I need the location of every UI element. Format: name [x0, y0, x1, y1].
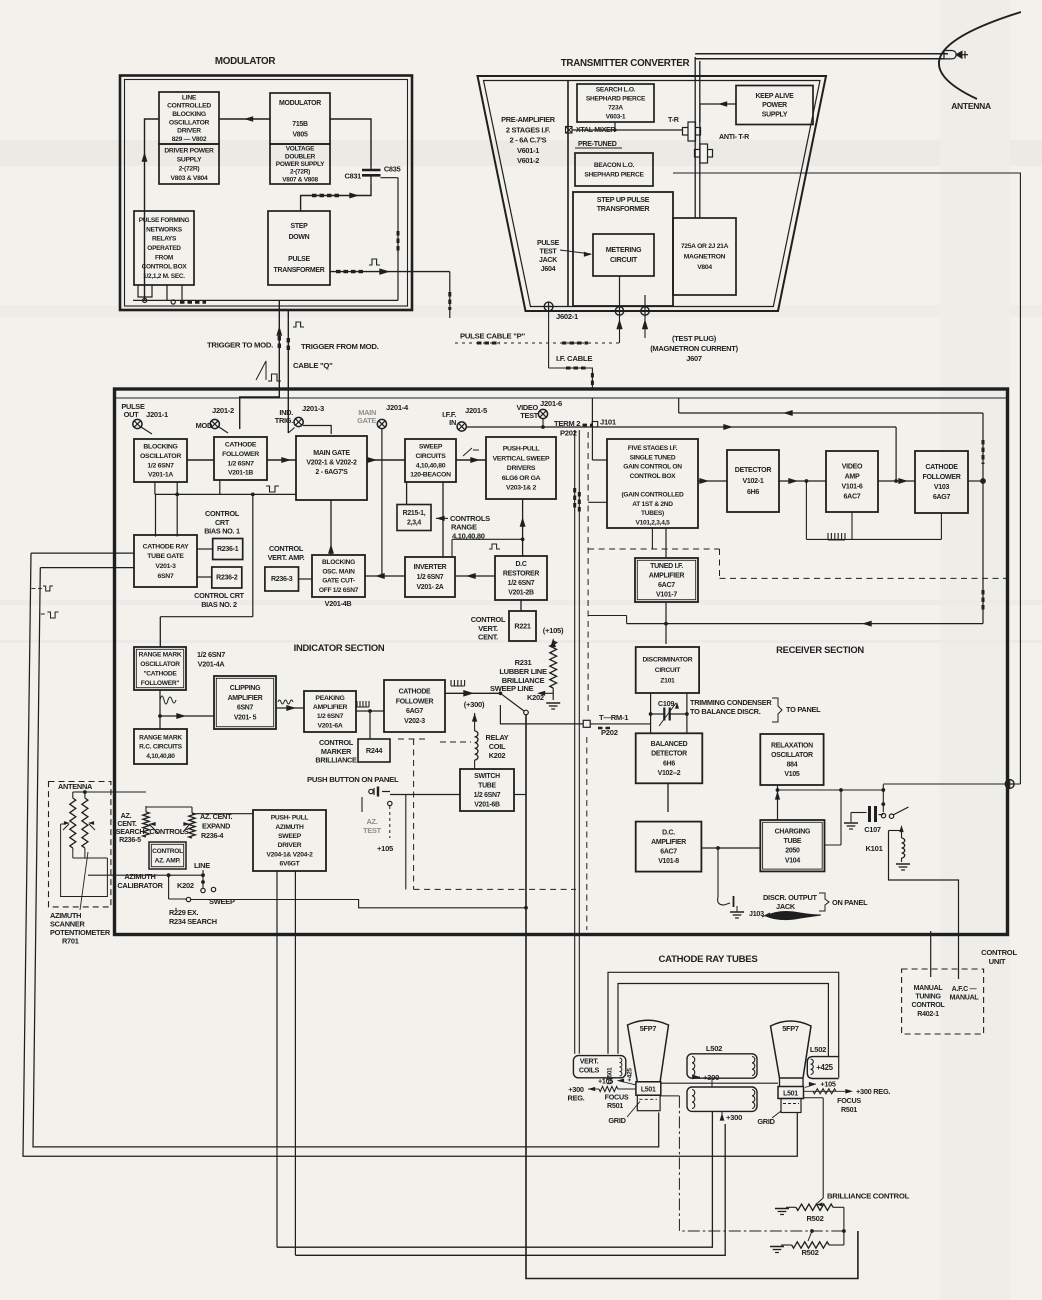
potentiometer R502 lower: [770, 1229, 844, 1257]
svg-text:GATE: GATE: [357, 416, 376, 425]
svg-text:R221: R221: [514, 621, 530, 630]
svg-text:+300: +300: [703, 1073, 719, 1082]
jack J201-3 ind trig: [275, 404, 334, 444]
wire C831 to step down transformer: [301, 184, 371, 211]
wire blocking osc to cathode follower: [187, 459, 214, 461]
svg-text:6AC7: 6AC7: [658, 582, 675, 589]
wire antenna to az line: [85, 791, 146, 793]
svg-text:DISCR. OUTPUT: DISCR. OUTPUT: [763, 893, 817, 902]
svg-text:CONTROL: CONTROL: [471, 615, 506, 624]
svg-text:PULSE: PULSE: [537, 240, 560, 247]
waveform glyph gate A: [32, 586, 54, 591]
svg-text:AMPLIFIER: AMPLIFIER: [649, 573, 685, 580]
svg-text:RANGE MARK: RANGE MARK: [139, 651, 182, 658]
wire detector to video amp: [779, 478, 826, 539]
svg-text:SHEPHARD PIERCE: SHEPHARD PIERCE: [586, 96, 646, 103]
svg-text:TO PANEL: TO PANEL: [786, 705, 821, 714]
svg-text:CLIPPING: CLIPPING: [230, 685, 261, 692]
svg-text:CENT.: CENT.: [117, 820, 137, 828]
svg-text:MAGNETRON: MAGNETRON: [684, 254, 726, 261]
svg-text:CIRCUIT: CIRCUIT: [610, 256, 638, 264]
svg-text:2 - 6A C.7'S: 2 - 6A C.7'S: [510, 136, 547, 145]
svg-text:AMPLIFIER: AMPLIFIER: [228, 695, 263, 702]
svg-text:RANGE MARK: RANGE MARK: [139, 734, 182, 741]
svg-text:6LG6 OR GA: 6LG6 OR GA: [502, 475, 541, 482]
wire push button branch down: [405, 795, 407, 890]
label +300 middle: [692, 1073, 719, 1087]
svg-text:SWEEP: SWEEP: [278, 833, 302, 840]
svg-text:OUT: OUT: [124, 410, 140, 419]
wire step down output pulse cable: [330, 268, 450, 275]
svg-text:725A OR 2J 21A: 725A OR 2J 21A: [681, 243, 729, 250]
svg-text:715B: 715B: [292, 121, 308, 128]
wire five stages bottom: [588, 502, 652, 549]
wire pulse cable P: [447, 272, 622, 343]
pulse test jack label: [537, 240, 592, 273]
svg-text:BRILLIANCE CONTROL: BRILLIANCE CONTROL: [827, 1192, 910, 1201]
svg-text:DOWN: DOWN: [289, 234, 310, 241]
svg-text:ANTENNA: ANTENNA: [951, 101, 991, 111]
wire keep alive to TR: [700, 101, 736, 122]
svg-text:V201-2B: V201-2B: [508, 589, 534, 596]
svg-text:V105: V105: [784, 771, 800, 778]
svg-text:884: 884: [787, 761, 798, 768]
svg-text:FOLLOWER: FOLLOWER: [922, 474, 960, 481]
svg-text:VERT.: VERT.: [478, 624, 498, 633]
resistor R236-2: [212, 567, 242, 588]
svg-text:1/2 6SN7: 1/2 6SN7: [474, 792, 501, 799]
svg-text:V104: V104: [785, 857, 801, 864]
wire restorer to inverter: [455, 573, 495, 579]
pre-amplifier compartment divider: [567, 81, 569, 307]
pre-tuned label: [575, 141, 622, 148]
svg-text:PULSE CABLE "P": PULSE CABLE "P": [460, 332, 525, 341]
wire beacon output to receiver: [673, 173, 1020, 784]
svg-text:TRIGGER FROM MOD.: TRIGGER FROM MOD.: [301, 342, 379, 351]
svg-text:DETECTOR: DETECTOR: [651, 751, 687, 758]
svg-text:AZ.: AZ.: [366, 817, 377, 826]
label az cent search R236-5: [116, 812, 145, 844]
svg-text:RESTORER: RESTORER: [503, 570, 539, 577]
svg-text:CONTROL BOX: CONTROL BOX: [142, 264, 188, 271]
terminal TERM 2 P202: [554, 419, 592, 438]
svg-text:R236-1: R236-1: [217, 546, 239, 553]
svg-text:L501: L501: [641, 1086, 656, 1093]
svg-text:6SN7: 6SN7: [158, 573, 174, 580]
svg-text:FIVE STAGES I.F.: FIVE STAGES I.F.: [628, 445, 678, 452]
beacon LO shephard pierce: [575, 153, 653, 186]
wire five stages to tuned IF: [665, 528, 667, 558]
svg-text:+425: +425: [816, 1063, 833, 1072]
control az amp: [149, 842, 186, 869]
svg-text:R502: R502: [806, 1214, 823, 1223]
svg-text:GAIN CONTROL ON: GAIN CONTROL ON: [623, 464, 682, 471]
svg-text:CRT: CRT: [215, 518, 230, 527]
charging tube 2050 V104: [760, 820, 824, 871]
svg-text:CATHODE RAY TUBES: CATHODE RAY TUBES: [658, 954, 758, 965]
svg-text:J201-2: J201-2: [212, 406, 234, 415]
svg-text:BEACON L.O.: BEACON L.O.: [594, 162, 635, 169]
svg-text:V201-1A: V201-1A: [148, 472, 173, 479]
svg-text:V101-6: V101-6: [841, 484, 862, 491]
svg-text:INDICATOR SECTION: INDICATOR SECTION: [294, 642, 385, 653]
jack J201-6 video test: [516, 399, 562, 429]
dashed mechanical link relay: [440, 741, 471, 743]
svg-text:R215-1,: R215-1,: [403, 510, 426, 517]
svg-text:V807 & V808: V807 & V808: [282, 176, 318, 183]
relay coil K101: [865, 825, 910, 870]
cathode follower V202-3: [384, 680, 445, 732]
svg-text:6AC7: 6AC7: [844, 494, 861, 501]
svg-text:STEP: STEP: [291, 223, 309, 230]
svg-text:V601-2: V601-2: [517, 156, 539, 165]
wire vertical sweep pair to crt: [575, 430, 580, 1054]
svg-text:TRIMMING CONDENSER: TRIMMING CONDENSER: [690, 698, 772, 707]
balanced detector V102-2: [636, 733, 703, 783]
svg-text:6H6: 6H6: [747, 489, 759, 496]
svg-text:CONTROL: CONTROL: [912, 1002, 946, 1009]
svg-text:R402-1: R402-1: [917, 1011, 939, 1018]
svg-text:1/2 6SN7: 1/2 6SN7: [317, 713, 344, 720]
svg-text:R501: R501: [607, 1102, 623, 1110]
wire dc amplifier to charging tube: [701, 846, 760, 897]
az test arrow: [359, 797, 364, 825]
svg-text:SUPPLY: SUPPLY: [762, 112, 788, 119]
svg-text:V601-1: V601-1: [517, 146, 539, 155]
svg-text:POTENTIOMETER: POTENTIOMETER: [50, 928, 111, 937]
relaxation oscillator 884 V105: [760, 734, 823, 785]
label +300 lower middle: [720, 1111, 742, 1122]
svg-text:RECEIVER SECTION: RECEIVER SECTION: [776, 644, 864, 655]
push button symbol: [369, 787, 390, 797]
svg-text:IN: IN: [449, 418, 456, 427]
resistor R221: [509, 611, 536, 641]
label discr output jack: [763, 893, 868, 911]
label trimming condenser: [690, 698, 821, 722]
svg-text:C107: C107: [864, 825, 881, 834]
wire crt gate to R236-1: [197, 548, 213, 550]
wire crt1 L501 to feedback dropper: [660, 1096, 844, 1231]
label R229 R234: [169, 908, 217, 926]
dc restorer V201-2B: [495, 556, 547, 600]
range resistors R215: [397, 505, 431, 531]
wire azimuth driver outputs: [277, 871, 295, 1255]
sweep coil L502 right: [807, 1045, 838, 1079]
svg-text:CABLE "Q": CABLE "Q": [293, 361, 333, 370]
svg-text:BALANCED: BALANCED: [651, 741, 688, 748]
svg-text:UNIT: UNIT: [989, 957, 1006, 966]
svg-text:MODULATOR: MODULATOR: [279, 100, 321, 107]
switch tube V201-6B: [460, 769, 514, 811]
svg-text:LINE: LINE: [182, 94, 197, 101]
wire video output bus: [679, 398, 986, 624]
wire main gate to blocking cutoff: [328, 500, 334, 555]
svg-text:R236-2: R236-2: [216, 575, 238, 582]
svg-text:FROM: FROM: [155, 254, 173, 261]
keep alive power supply: [736, 86, 813, 125]
wire balanced detector to dc amplifier: [665, 783, 672, 828]
svg-text:+300: +300: [726, 1113, 742, 1122]
modulator tube 715B V805: [270, 93, 330, 144]
svg-text:DISCRIMINATOR: DISCRIMINATOR: [642, 657, 692, 664]
svg-text:1/2 6SN7: 1/2 6SN7: [147, 462, 174, 469]
svg-text:TUBE: TUBE: [784, 838, 802, 845]
step down pulse transformer: [268, 211, 330, 285]
resistor R236-3: [265, 567, 299, 591]
svg-text:P202: P202: [601, 728, 618, 737]
svg-text:J201-6: J201-6: [540, 399, 562, 408]
wire relaxation osc to K101 switch: [778, 788, 886, 845]
wire trigger to modulator: [240, 300, 283, 429]
waveguide to antenna: [695, 51, 968, 219]
svg-text:ON PANEL: ON PANEL: [832, 898, 868, 907]
wire clipping to peaking: [276, 700, 304, 711]
svg-text:4,10,40,80: 4,10,40,80: [416, 462, 446, 469]
wire calibrator branch: [167, 873, 186, 899]
svg-text:L502: L502: [706, 1044, 722, 1053]
T-R switch symbol: [668, 116, 701, 141]
svg-text:TRANSFORMER: TRANSFORMER: [597, 205, 651, 213]
svg-text:LUBBER LINE: LUBBER LINE: [499, 667, 547, 676]
svg-text:6AC7: 6AC7: [660, 849, 677, 856]
marker brilliance R244: [358, 739, 390, 762]
waveform glyph range mark: [160, 696, 176, 704]
svg-text:DETECTOR: DETECTOR: [735, 467, 772, 474]
labels right crt supplies: [757, 1080, 890, 1127]
svg-text:6AG7: 6AG7: [406, 708, 423, 715]
svg-text:+300 REG.: +300 REG.: [856, 1087, 890, 1096]
svg-text:6H6: 6H6: [663, 760, 675, 767]
svg-text:CALIBRATOR: CALIBRATOR: [117, 881, 163, 890]
svg-text:DOUBLER: DOUBLER: [285, 153, 316, 160]
potentiometer az cent search R236-5: [143, 806, 158, 837]
svg-text:POWER: POWER: [762, 102, 787, 109]
svg-text:K202: K202: [489, 751, 506, 760]
svg-text:NETWORKS: NETWORKS: [146, 226, 183, 233]
svg-text:(GAIN CONTROLLED: (GAIN CONTROLLED: [622, 492, 684, 499]
cathode ray tube gate V201-3: [134, 535, 197, 587]
svg-text:LINE: LINE: [194, 861, 210, 870]
svg-text:CATHODE: CATHODE: [399, 688, 431, 695]
svg-text:J201-1: J201-1: [146, 410, 169, 419]
svg-text:CATHODE: CATHODE: [925, 464, 958, 471]
svg-text:KEEP ALIVE: KEEP ALIVE: [755, 93, 794, 100]
blocking oscillator V201-1A: [134, 439, 187, 482]
wire bias net down to range mark osc: [157, 494, 252, 647]
svg-text:CONTROL: CONTROL: [981, 948, 1017, 957]
svg-text:1/2 6SN7: 1/2 6SN7: [508, 580, 535, 587]
svg-text:BLOCKING: BLOCKING: [322, 559, 355, 566]
svg-text:V202-3: V202-3: [404, 718, 425, 725]
svg-text:ANTI- T-R: ANTI- T-R: [719, 133, 750, 141]
wire sweep circuits to range controls R215: [407, 482, 446, 557]
wire cathode follower to main gate: [267, 457, 296, 463]
driver power supply V803 V804: [159, 144, 219, 184]
svg-text:V101,2,3,4,5: V101,2,3,4,5: [635, 519, 670, 526]
svg-text:SWEEP LINE: SWEEP LINE: [490, 684, 534, 693]
svg-text:POWER SUPPLY: POWER SUPPLY: [276, 161, 325, 168]
svg-text:R244: R244: [366, 746, 382, 755]
svg-text:VIDEO: VIDEO: [842, 464, 863, 471]
svg-text:SINGLE TUNED: SINGLE TUNED: [630, 454, 676, 461]
clipping amplifier V201-5: [214, 676, 276, 729]
svg-text:PULSE FORMING: PULSE FORMING: [139, 217, 190, 224]
wire scanner loop: [61, 824, 108, 897]
label controls range: [436, 514, 490, 541]
svg-text:DRIVER: DRIVER: [177, 128, 201, 135]
svg-text:V101-7: V101-7: [656, 591, 677, 598]
svg-text:V201- 5: V201- 5: [234, 714, 257, 721]
svg-text:I.F. CABLE: I.F. CABLE: [556, 354, 592, 363]
sweep circuits: [405, 439, 456, 482]
svg-text:PUSH BUTTON ON PANEL: PUSH BUTTON ON PANEL: [307, 775, 399, 784]
svg-text:FOCUS: FOCUS: [837, 1097, 861, 1105]
wire inverter to cutoff: [365, 573, 405, 579]
svg-text:VERT.: VERT.: [580, 1059, 599, 1066]
svg-text:C109: C109: [658, 699, 674, 708]
wire main gate to sweep circuits: [367, 457, 405, 463]
svg-text:1/2,1,2 M. SEC.: 1/2,1,2 M. SEC.: [143, 273, 185, 280]
svg-text:V204-1& V204-2: V204-1& V204-2: [266, 851, 313, 858]
svg-text:2-(72R): 2-(72R): [179, 166, 200, 173]
svg-text:C835: C835: [384, 165, 401, 174]
search LO shephard pierce 723A: [577, 84, 654, 122]
jack J201-2 mod: [196, 406, 234, 433]
svg-text:V101-8: V101-8: [658, 858, 679, 865]
svg-text:R.C. CIRCUITS: R.C. CIRCUITS: [139, 744, 182, 751]
svg-text:1/2 6SN7: 1/2 6SN7: [417, 574, 444, 581]
svg-text:CATHODE: CATHODE: [225, 442, 257, 449]
svg-text:TUBE GATE: TUBE GATE: [147, 553, 184, 560]
wire to AFC manual: [889, 831, 962, 993]
wire driver feedback left: [145, 119, 160, 300]
crt tube 5FP7 left: [628, 1020, 669, 1082]
control unit dashed box: [902, 969, 984, 1034]
svg-text:L501: L501: [783, 1091, 798, 1098]
wire restorer to R221: [520, 600, 522, 611]
wire sweep select line: [191, 900, 528, 910]
capacitor C107: [844, 806, 883, 834]
waveform glyph near step down output: [369, 259, 380, 265]
svg-text:4,10,40,80: 4,10,40,80: [146, 753, 175, 760]
wire IF cable: [549, 311, 593, 389]
pulse forming networks box: [134, 211, 194, 285]
svg-text:OSCILLATOR: OSCILLATOR: [140, 661, 180, 668]
range mark oscillator V201-4A: [134, 647, 186, 690]
svg-text:MOD: MOD: [196, 421, 213, 430]
svg-text:V201-6A: V201-6A: [318, 722, 343, 729]
svg-text:REG.: REG.: [568, 1094, 585, 1103]
svg-text:COIL: COIL: [489, 742, 506, 751]
svg-text:CENT.: CENT.: [478, 633, 498, 642]
svg-text:CONTROLLED: CONTROLLED: [167, 103, 211, 110]
wire push button to switch tube: [390, 794, 460, 796]
svg-text:J103: J103: [749, 910, 764, 918]
svg-text:+105: +105: [598, 1078, 613, 1086]
test jack terminals: [615, 276, 649, 315]
waveform glyph gate B: [41, 612, 59, 618]
svg-text:PRE-AMPLIFIER: PRE-AMPLIFIER: [501, 115, 556, 124]
svg-text:INVERTER: INVERTER: [414, 564, 447, 571]
svg-text:PEAKING: PEAKING: [315, 695, 344, 702]
svg-text:AZIMUTH: AZIMUTH: [124, 872, 155, 881]
jack J602-1 on transmitter: [544, 302, 579, 321]
waveform glyph gate: [266, 486, 279, 492]
xtal mixer label and symbol: [566, 127, 616, 135]
svg-text:(+300): (+300): [464, 700, 485, 709]
svg-text:TRANSFORMER: TRANSFORMER: [274, 267, 325, 274]
svg-text:SHEPHARD PIERCE: SHEPHARD PIERCE: [584, 171, 644, 178]
wire video amp bottom bus: [806, 513, 941, 540]
svg-text:TO BALANCE DISCR.: TO BALANCE DISCR.: [690, 707, 761, 716]
svg-text:TRANSMITTER CONVERTER: TRANSMITTER CONVERTER: [561, 58, 690, 69]
wire to manual tuning control: [928, 931, 934, 990]
wire IF input to five stages: [590, 398, 607, 460]
svg-text:AT 1ST & 2ND: AT 1ST & 2ND: [632, 501, 673, 508]
wire blocking osc to crt gate net: [155, 480, 296, 537]
discriminator circuit Z101: [636, 647, 699, 693]
svg-text:TRIGGER TO MOD.: TRIGGER TO MOD.: [207, 341, 273, 350]
capacitor C831 C835: [344, 165, 400, 301]
wire azimuth output run right 2: [295, 1124, 725, 1255]
svg-text:CHARGING: CHARGING: [775, 828, 811, 835]
svg-text:A.F.C —: A.F.C —: [952, 986, 978, 993]
svg-text:BIAS NO. 1: BIAS NO. 1: [204, 527, 240, 536]
resistor R231 lubber line brilliance: [546, 638, 560, 709]
anti T-R switch symbol: [695, 133, 751, 163]
svg-text:V603-1: V603-1: [606, 113, 626, 120]
svg-text:OSC. MAIN: OSC. MAIN: [322, 568, 355, 575]
wire search LO to mixer: [614, 122, 616, 130]
svg-text:1/2 6SN7: 1/2 6SN7: [197, 650, 225, 659]
svg-text:6V6GT: 6V6GT: [280, 861, 301, 868]
svg-text:6AG7: 6AG7: [933, 494, 951, 501]
wire brilliance tap to crt2: [804, 1098, 824, 1198]
antenna scanner dashed box: [49, 782, 111, 907]
voltage doubler power supply V807 V808: [270, 144, 330, 184]
modulator enclosure box: [120, 76, 412, 311]
svg-text:AMPLIFIER: AMPLIFIER: [313, 704, 348, 711]
svg-text:Z101: Z101: [660, 678, 675, 685]
magnetron 725A V804: [673, 218, 736, 295]
labels left crt supplies: [568, 1078, 640, 1126]
svg-text:120-BEACON: 120-BEACON: [410, 472, 451, 479]
svg-text:J201-4: J201-4: [386, 403, 409, 412]
wire crt gate outputs to deflection: [31, 553, 134, 568]
svg-text:MARKER: MARKER: [321, 747, 352, 756]
svg-text:OPERATED: OPERATED: [147, 245, 181, 252]
svg-text:TEST: TEST: [363, 826, 382, 835]
svg-text:VOLTAGE: VOLTAGE: [286, 146, 315, 153]
wire push-pull down to DC restorer: [452, 499, 526, 564]
svg-text:EXPAND: EXPAND: [202, 822, 230, 831]
dashed boundary azimuth region: [398, 739, 576, 889]
wire sweep line to TERM-1: [500, 705, 650, 724]
svg-text:AMPLIFIER: AMPLIFIER: [651, 839, 686, 846]
svg-text:CONTROL: CONTROL: [319, 738, 354, 747]
wire relaxation osc to charging tube: [775, 785, 780, 820]
svg-text:RELAY: RELAY: [486, 733, 509, 742]
svg-text:PULSE: PULSE: [288, 256, 310, 263]
svg-text:TEST: TEST: [540, 249, 558, 256]
five stages IF gain control box: [607, 439, 698, 528]
label azimuth scanner potentiometer R701: [50, 852, 111, 946]
wire receiver AGC line: [883, 780, 1020, 789]
transmitter converter trapezoid enclosure: [478, 76, 827, 311]
trimming condenser C109: [649, 693, 689, 733]
svg-text:BRILLIANCE: BRILLIANCE: [315, 756, 357, 765]
svg-text:829 — V802: 829 — V802: [172, 136, 207, 143]
